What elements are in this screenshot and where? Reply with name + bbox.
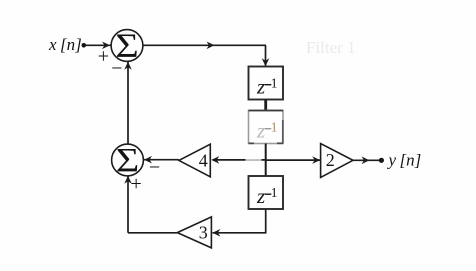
svg-text:2: 2 xyxy=(326,150,335,170)
adder U1 (top sum) xyxy=(111,30,143,62)
wire bottom feedback up into U2 xyxy=(127,176,129,233)
wire x[n] to adder U1 xyxy=(86,44,111,46)
wire Z1 to Z2 xyxy=(264,100,267,111)
delay Z3 (z^-1) xyxy=(249,176,284,209)
gain A4 (triangle, value 4) xyxy=(179,144,210,177)
wire corner down into delay Z1 xyxy=(265,45,267,65)
wire A3 output to bottom corner xyxy=(128,232,177,234)
delay Z2 (faded z^-1) xyxy=(249,111,284,144)
gain A3 (triangle, value 3) xyxy=(177,217,211,248)
svg-text:z: z xyxy=(256,118,265,142)
wire Z3 bottom to A3 input xyxy=(213,209,266,233)
wire Z2 to Z3 through tap junction xyxy=(265,144,267,177)
svg-text:3: 3 xyxy=(199,223,208,243)
svg-text:1: 1 xyxy=(271,185,278,200)
svg-text:z: z xyxy=(256,184,265,208)
delay Z1 (z^-1) xyxy=(249,67,284,100)
svg-text:Filter 1: Filter 1 xyxy=(306,38,356,57)
node output terminal dot xyxy=(379,158,384,163)
wire U1 output to delay column xyxy=(143,44,267,46)
svg-text:+: + xyxy=(131,173,142,195)
svg-text:x [n]: x [n] xyxy=(48,35,82,54)
svg-text:4: 4 xyxy=(199,150,208,170)
wire U2 output up to U1 xyxy=(127,62,129,145)
wire tap line to gain A4 (left) xyxy=(213,159,266,161)
wire A2 output to y[n] xyxy=(353,159,379,161)
wire tap line to gain A2 (right) xyxy=(266,159,320,161)
svg-text:−: − xyxy=(111,57,122,79)
svg-text:z: z xyxy=(256,74,265,98)
svg-text:y [n]: y [n] xyxy=(387,151,422,170)
svg-text:1: 1 xyxy=(271,76,278,91)
svg-text:−: − xyxy=(149,157,160,179)
gain A2 (triangle, value 2) xyxy=(321,144,353,178)
adder U2 (lower sum) xyxy=(112,144,144,176)
wire A4 output to adder U2 xyxy=(144,159,179,161)
svg-text:+: + xyxy=(98,45,109,67)
svg-text:1: 1 xyxy=(271,120,278,135)
node input terminal dot xyxy=(82,43,87,48)
